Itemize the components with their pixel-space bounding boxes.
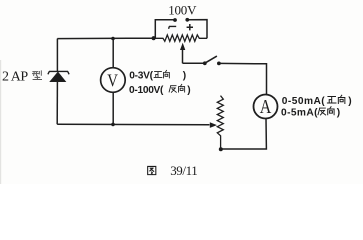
svg-text:): ) (187, 85, 190, 96)
label 2 AP type (2, 69, 28, 84)
switch S1 left contact (203, 61, 207, 65)
svg-text:0-5mA(: 0-5mA( (281, 108, 318, 119)
wire switch to right branch (219, 63, 267, 94)
ammeter A (254, 95, 278, 119)
svg-text:A: A (260, 95, 272, 117)
node junction left end of rheostat loop (152, 36, 156, 40)
svg-text:0-3V(: 0-3V( (129, 71, 153, 82)
svg-text:): ) (348, 96, 351, 107)
wiper arrowhead into rheostat R2 (210, 122, 217, 128)
wire top horizontal (57, 37, 153, 39)
label voltmeter range line 2: 0-100V (reverse) (129, 85, 164, 96)
label voltmeter range line 1: 0-3V (forward) (129, 71, 153, 82)
diode D1 triangle (50, 72, 65, 81)
voltmeter V (101, 68, 126, 93)
svg-text:): ) (337, 108, 340, 119)
label xing character of 2AP type (32, 71, 41, 80)
node junction bottom of voltmeter branch (111, 123, 115, 127)
switch S1 right contact (217, 62, 221, 66)
scan edge artifact left (0, 60, 1, 184)
wire voltmeter branch upper (112, 39, 114, 69)
node junction top of voltmeter branch (111, 37, 115, 41)
svg-text:39/11: 39/11 (170, 163, 197, 178)
svg-text:2 AP: 2 AP (2, 69, 28, 84)
caption figure number 39/11 (170, 163, 197, 178)
wire left branch upper (56, 39, 58, 71)
rheostat R1 horizontal zigzag (155, 35, 207, 41)
svg-text:V: V (107, 70, 118, 91)
wiper arrowhead of rheostat R1 (180, 43, 185, 50)
ammeter letter A (260, 95, 272, 117)
caption figure character tu (148, 166, 156, 174)
label ammeter range line 1: 0-50mA (forward) (282, 96, 326, 107)
diode D1 (2AP type) cathode bar (48, 71, 69, 74)
svg-text:0-100V(: 0-100V( (129, 85, 164, 96)
node battery terminal minus (173, 18, 177, 22)
wiper arrow stem of rheostat R1 (182, 49, 184, 63)
wire ammeter to bottom right corner (221, 119, 266, 149)
label ammeter range line 2: 0-5mA (reverse) (281, 108, 318, 119)
wire battery loop right side (188, 20, 207, 39)
battery polarity minus sign (169, 26, 177, 28)
wire wiper to switch (183, 62, 205, 64)
svg-text:100V: 100V (168, 3, 197, 18)
svg-text:0-50mA(: 0-50mA( (282, 96, 326, 107)
wire battery loop left side (155, 20, 174, 39)
label 100V (168, 3, 197, 18)
node junction bottom of rheostat R2 (219, 147, 223, 151)
svg-text:): ) (183, 71, 186, 82)
wire voltmeter branch lower (112, 93, 114, 125)
voltmeter letter V (107, 70, 118, 91)
node battery terminal plus (185, 18, 189, 22)
rheostat R2 vertical zigzag (217, 96, 223, 150)
battery polarity plus sign (187, 24, 193, 30)
switch S1 blade (205, 56, 217, 63)
wire bottom horizontal to wiper arrow (57, 123, 209, 126)
wire left branch lower (56, 82, 58, 124)
